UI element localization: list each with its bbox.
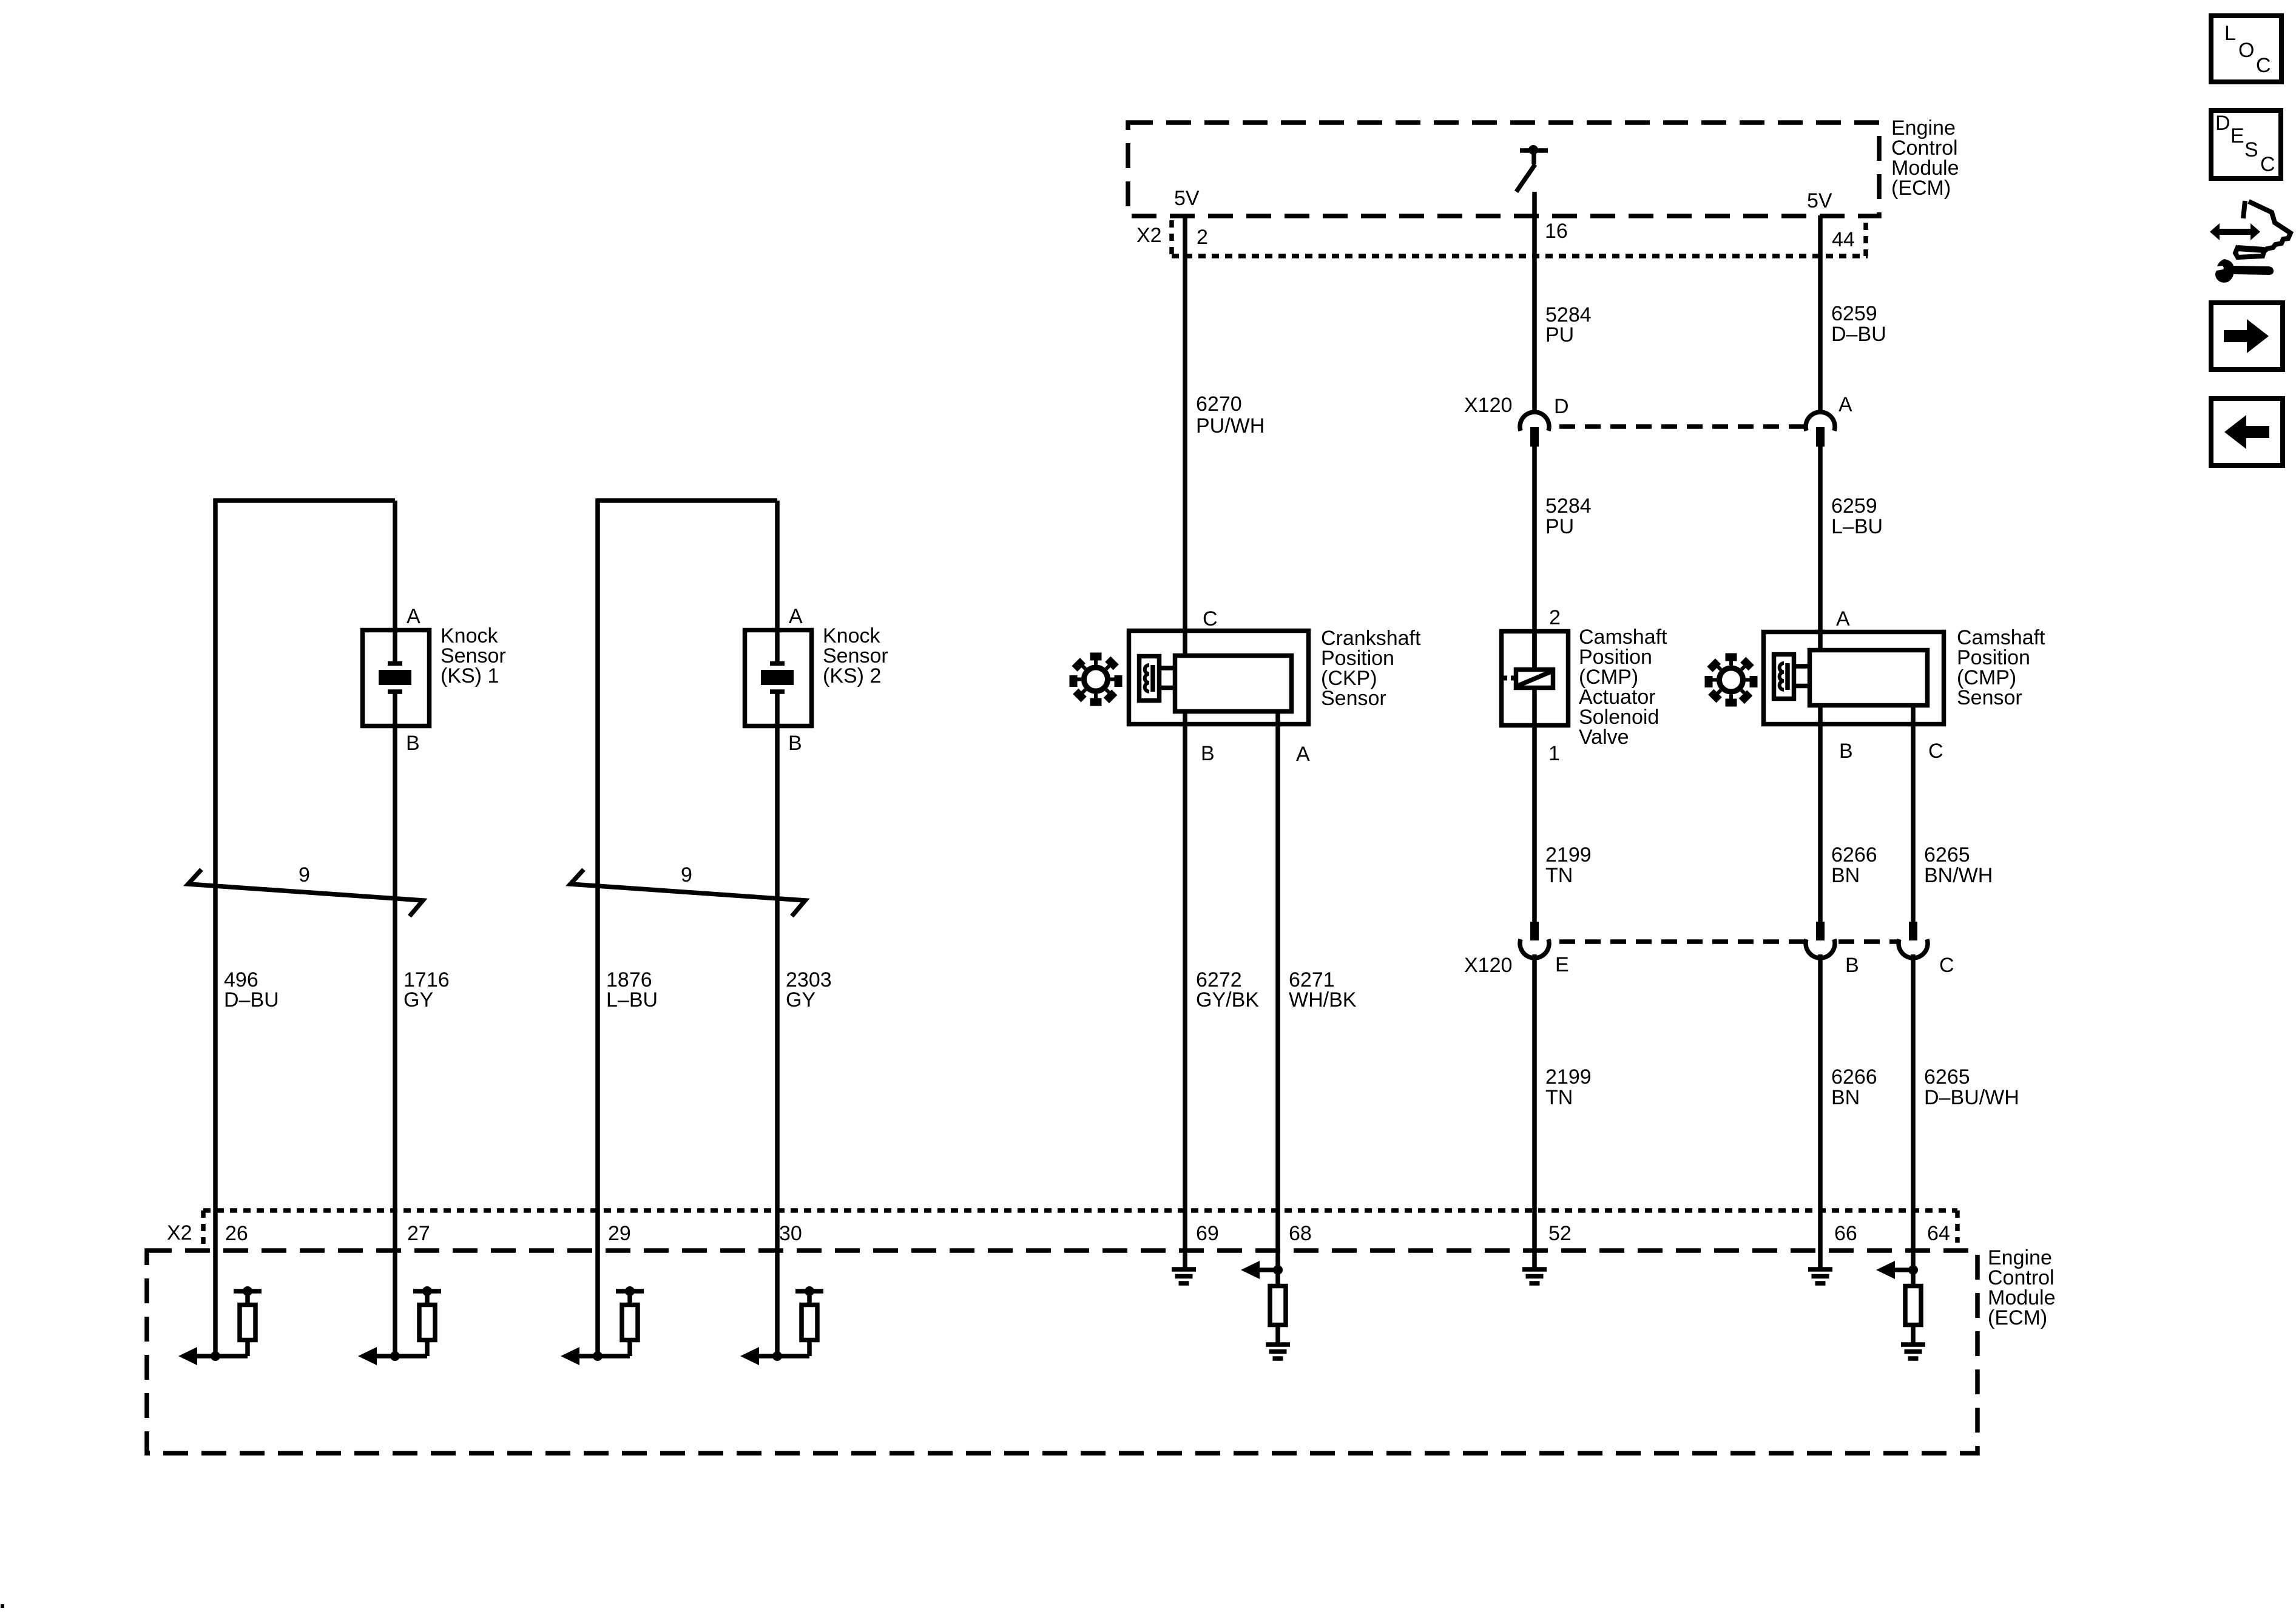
pin 66 internal ground: [1808, 1269, 1832, 1283]
svg-text:O: O: [2238, 39, 2254, 62]
wire label 2199 TN lower: [1545, 1065, 1592, 1109]
wire label 1716 GY: [403, 968, 450, 1011]
CMP actuator solenoid valve box: [1502, 632, 1568, 726]
switch symbol at pin 16: [1516, 145, 1548, 192]
X120 connector C: [1899, 922, 1928, 958]
svg-text:52: 52: [1548, 1222, 1572, 1245]
wire 6265 D-BU/WH: X120 C to ECM pin 64: [1911, 954, 1916, 1270]
CMP pickup core bar: [1785, 663, 1790, 690]
X120 connector A: [1806, 412, 1835, 447]
svg-text:64: 64: [1927, 1222, 1950, 1245]
CMP sensor outer box: [1764, 632, 1944, 724]
svg-text:BN: BN: [1831, 864, 1860, 887]
svg-text:A: A: [407, 605, 420, 628]
wire label 5284 PU upper: [1545, 303, 1592, 346]
svg-text:A: A: [789, 605, 803, 628]
svg-text:6265: 6265: [1924, 843, 1970, 866]
svg-text:GY: GY: [786, 988, 815, 1011]
icon right-arrow box: [2211, 303, 2283, 370]
CKP pickup core bar: [1150, 665, 1155, 692]
CKP wire A: sensor to ECM pin 68: [1275, 712, 1280, 1270]
wire 6259 L-BU: X120 A to CMP sensor A: [1818, 446, 1823, 648]
svg-text:44: 44: [1832, 228, 1855, 251]
CMP wire C: sensor to X120 C: [1911, 706, 1916, 922]
svg-text:TN: TN: [1545, 864, 1573, 887]
svg-text:BN/WH: BN/WH: [1924, 864, 1993, 887]
X120 bottom dashed link E-B: [1559, 939, 1804, 944]
wire label 6266 BN lower: [1831, 1065, 1877, 1109]
KS1 piezo element symbol: [379, 664, 411, 692]
svg-text:D: D: [2215, 112, 2230, 135]
svg-text:(KS) 2: (KS) 2: [823, 664, 881, 687]
svg-text:(KS) 1: (KS) 1: [441, 664, 499, 687]
X120 connector E: [1520, 922, 1549, 958]
pin 68 internal resistor to ground with arrow: [1241, 1261, 1290, 1359]
wire label 6265 D-BU/WH: [1924, 1065, 2019, 1109]
svg-text:C: C: [1939, 954, 1954, 977]
CMP gear icon: [1693, 643, 1769, 718]
CKP inner body rectangle: [1175, 656, 1292, 712]
KS1 label: [441, 624, 506, 687]
wire 6270 PU/WH: ECM pin 2 to CKP sensor C: [1183, 215, 1187, 653]
svg-text:5V: 5V: [1174, 187, 1200, 210]
pin 26 internal resistor network with arrow: [178, 1286, 262, 1365]
wire 5284 PU lower: X120 D to solenoid pin 2: [1532, 446, 1537, 667]
svg-text:6259: 6259: [1831, 302, 1877, 325]
solenoid coil rectangle with diagonal: [1502, 670, 1553, 688]
svg-text:6270: 6270: [1196, 393, 1242, 416]
svg-text:X120: X120: [1464, 394, 1512, 417]
svg-text:27: 27: [407, 1222, 430, 1245]
wire 496 D-BU: KS1 loop left, to ECM pin 26: [215, 501, 395, 1356]
pin 27 internal resistor network with arrow: [358, 1286, 441, 1365]
svg-text:C: C: [1928, 740, 1943, 763]
solenoid wire: coil to pin 1, down to X120 E: [1532, 690, 1537, 922]
svg-text:C: C: [2260, 153, 2275, 176]
svg-text:30: 30: [779, 1222, 802, 1245]
CMP actuator solenoid valve label: [1579, 626, 1667, 749]
svg-text:C: C: [2256, 54, 2271, 77]
solenoid wire inside (pin 2 to coil): [1532, 629, 1537, 667]
X120 connector B: [1806, 922, 1835, 958]
wire 6266 BN: X120 B to ECM pin 66: [1818, 954, 1823, 1269]
svg-text:D–BU: D–BU: [224, 988, 279, 1011]
svg-text:66: 66: [1834, 1222, 1857, 1245]
svg-text:B: B: [788, 732, 802, 755]
svg-text:E: E: [1555, 953, 1569, 976]
icon left-arrow box: [2211, 399, 2283, 465]
wire label 2199 TN upper: [1545, 843, 1592, 887]
X120 connector D: [1520, 412, 1549, 447]
svg-text:9: 9: [299, 863, 310, 886]
wire label 6259 D-BU: [1831, 302, 1886, 346]
wire label 2303 GY: [786, 968, 832, 1011]
svg-text:X2: X2: [1136, 224, 1162, 247]
svg-text:A: A: [1838, 393, 1852, 416]
svg-text:6266: 6266: [1831, 1065, 1877, 1089]
knock sensor KS2 box: [745, 630, 812, 726]
CKP pickup coil squiggle: [1145, 665, 1149, 692]
wire label 6266 BN upper: [1831, 843, 1877, 887]
svg-text:9: 9: [681, 863, 692, 886]
svg-text:5284: 5284: [1545, 495, 1592, 518]
svg-text:6266: 6266: [1831, 843, 1877, 866]
svg-text:B: B: [1845, 954, 1859, 977]
svg-text:A: A: [1296, 743, 1310, 766]
wire label 6265 BN/WH: [1924, 843, 1993, 887]
ECM bottom dashed box: [147, 1251, 1977, 1453]
CKP gear icon: [1058, 642, 1133, 717]
CKP wire B: sensor to ECM pin 69: [1183, 712, 1187, 1269]
wire label 6259 L-BU: [1831, 495, 1883, 538]
CMP pickup links: [1796, 666, 1808, 686]
wire KS1 A side: [393, 501, 397, 663]
X2 top connector dotted strip: [1172, 220, 1868, 256]
wire 6259 D-BU: ECM pin 44 to X120 A: [1818, 215, 1823, 413]
wire label 1876 L-BU: [606, 968, 658, 1011]
KS2 label: [823, 624, 888, 687]
svg-text:L–BU: L–BU: [606, 988, 658, 1011]
pin 52 internal ground: [1522, 1269, 1547, 1283]
svg-text:5V: 5V: [1807, 189, 1832, 212]
svg-text:E: E: [2230, 124, 2244, 147]
wire 5284 PU upper: ECM pin 16 to X120 D: [1532, 192, 1537, 413]
svg-text:(ECM): (ECM): [1891, 177, 1951, 200]
wire KS2 A side: [775, 501, 780, 663]
wire 1716 GY: KS1 B to ECM pin 27: [393, 692, 397, 1356]
svg-text:6259: 6259: [1831, 495, 1877, 518]
ECM bottom label: [1988, 1246, 2056, 1329]
CMP sensor label: [1957, 626, 2045, 709]
svg-text:L: L: [2224, 22, 2236, 45]
wire label 6272 GY/BK: [1196, 968, 1259, 1011]
svg-text:2199: 2199: [1545, 843, 1592, 866]
KS2 piezo element symbol: [761, 664, 794, 692]
svg-text:D: D: [1554, 395, 1569, 418]
svg-text:B: B: [1201, 742, 1215, 765]
svg-text:S: S: [2244, 138, 2258, 161]
svg-text:L–BU: L–BU: [1831, 515, 1883, 538]
svg-text:C: C: [1203, 607, 1218, 630]
ECM top label: [1891, 116, 1959, 200]
icon adjust-hand with double arrow and wrench: [2210, 201, 2291, 283]
svg-text:WH/BK: WH/BK: [1289, 988, 1357, 1011]
svg-text:PU: PU: [1545, 515, 1574, 538]
svg-text:29: 29: [608, 1222, 631, 1245]
svg-text:69: 69: [1196, 1222, 1219, 1245]
svg-text:GY/BK: GY/BK: [1196, 988, 1259, 1011]
svg-text:B: B: [1839, 740, 1853, 763]
X120 bottom dashed link B-C: [1838, 939, 1897, 944]
svg-text:1: 1: [1548, 742, 1560, 765]
svg-text:PU: PU: [1545, 323, 1574, 346]
CKP sensor label: [1321, 627, 1421, 710]
icon DESC box: [2211, 110, 2281, 178]
svg-text:B: B: [406, 732, 420, 755]
svg-text:(ECM): (ECM): [1988, 1306, 2047, 1329]
ECM top dashed box: [1128, 123, 1879, 216]
svg-text:GY: GY: [403, 988, 433, 1011]
pin 64 internal resistor to ground with arrow: [1876, 1261, 1925, 1359]
svg-text:2199: 2199: [1545, 1065, 1592, 1089]
icon LOC box: [2211, 16, 2281, 82]
KS1 twisted-pair crossing mark with label 9: [188, 863, 423, 916]
svg-text:D–BU/WH: D–BU/WH: [1924, 1086, 2019, 1109]
svg-text:A: A: [1836, 607, 1850, 630]
svg-text:Valve: Valve: [1579, 726, 1629, 749]
CMP pickup coil squiggle: [1780, 663, 1784, 690]
svg-text:TN: TN: [1545, 1086, 1573, 1109]
X120 top dashed link D-A: [1559, 424, 1804, 429]
wire 2199 TN: X120 E to ECM pin 52: [1532, 954, 1537, 1269]
svg-text:2: 2: [1549, 606, 1561, 629]
svg-text:D–BU: D–BU: [1831, 323, 1886, 346]
svg-text:Sensor: Sensor: [1957, 686, 2022, 709]
CKP inductive pickup box: [1140, 657, 1160, 701]
svg-text:68: 68: [1289, 1222, 1312, 1245]
wire 1876 L-BU: KS2 loop left, to ECM pin 29: [598, 501, 777, 1356]
CKP pickup links: [1161, 668, 1173, 688]
pin 29 internal resistor network with arrow: [561, 1286, 644, 1365]
CMP inner body rectangle: [1810, 650, 1928, 706]
svg-text:X2: X2: [167, 1221, 192, 1244]
wire label 5284 PU lower: [1545, 495, 1592, 538]
wire label 6271 WH/BK: [1289, 968, 1357, 1011]
wire label 6270 PU/WH: [1196, 393, 1264, 437]
knock sensor KS1 box: [363, 630, 430, 726]
page corner dot: [1, 1604, 4, 1608]
pin 30 internal resistor network with arrow: [740, 1286, 823, 1365]
svg-text:Sensor: Sensor: [1321, 687, 1386, 710]
svg-text:16: 16: [1545, 220, 1568, 243]
CMP wire B: sensor to X120 B: [1818, 706, 1823, 922]
svg-text:6265: 6265: [1924, 1065, 1970, 1089]
CMP inductive pickup box: [1774, 655, 1794, 699]
svg-text:X120: X120: [1464, 954, 1512, 977]
svg-text:PU/WH: PU/WH: [1196, 414, 1264, 437]
CKP sensor outer box: [1129, 631, 1309, 724]
wire 2303 GY: KS2 B to ECM pin 30: [775, 692, 780, 1356]
KS2 twisted-pair crossing mark with label 9: [570, 863, 805, 916]
svg-text:26: 26: [225, 1222, 248, 1245]
svg-text:2: 2: [1197, 226, 1208, 249]
svg-text:BN: BN: [1831, 1086, 1860, 1109]
pin 69 internal ground: [1172, 1269, 1196, 1283]
wire label 496 D-BU: [224, 968, 279, 1011]
X2 bottom connector dotted strip: [203, 1210, 1957, 1244]
